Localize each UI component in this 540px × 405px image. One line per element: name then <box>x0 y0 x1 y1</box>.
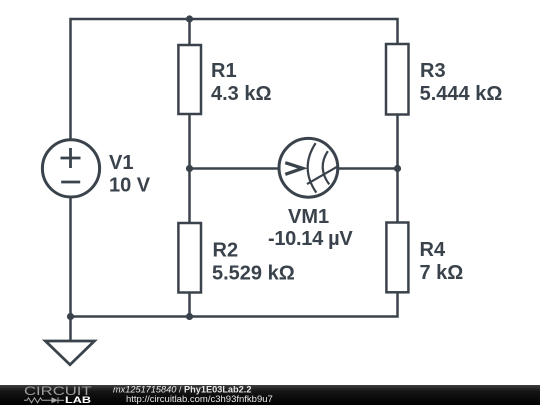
svg-text:5.529 kΩ: 5.529 kΩ <box>212 263 295 285</box>
node top <box>186 15 193 22</box>
svg-text:5.444 kΩ: 5.444 kΩ <box>420 83 503 105</box>
svg-text:R2: R2 <box>213 240 239 262</box>
wire R2 bottom stub <box>188 293 191 317</box>
wire ground stub <box>69 317 72 342</box>
wire VM1 left <box>190 167 279 170</box>
wire R1 to R2 <box>188 114 191 223</box>
wire R1 top stub <box>188 19 191 45</box>
svg-text:VM1: VM1 <box>288 206 329 228</box>
svg-text:R3: R3 <box>420 60 446 82</box>
svg-text:-10.14 µV: -10.14 µV <box>268 228 353 250</box>
node bottom-left <box>67 313 74 320</box>
svg-text:4.3 kΩ: 4.3 kΩ <box>211 83 272 105</box>
wire top rail <box>71 19 398 140</box>
svg-text:R1: R1 <box>211 60 237 82</box>
svg-text:http://circuitlab.com/c3h93fnf: http://circuitlab.com/c3h93fnfkb9u7 <box>126 394 273 405</box>
resistor R3 <box>386 44 409 115</box>
svg-text:V1: V1 <box>109 152 133 174</box>
voltmeter VM1 <box>279 138 338 197</box>
resistor R1 <box>178 45 201 114</box>
svg-text:R4: R4 <box>420 239 446 261</box>
resistor R2 <box>178 223 201 293</box>
svg-text:7 kΩ: 7 kΩ <box>420 262 464 284</box>
ground <box>45 341 94 365</box>
node bottom-mid <box>186 313 193 320</box>
resistor R4 <box>386 223 408 293</box>
logo resistor-diode symbol <box>24 397 64 403</box>
wire VM1 right <box>339 167 398 170</box>
voltage source V1 <box>42 140 99 197</box>
wire bottom rail <box>71 198 398 317</box>
node mid-left <box>186 165 193 172</box>
wire R3 to R4 <box>396 115 399 223</box>
node mid-right <box>394 165 401 172</box>
svg-text:LAB: LAB <box>65 395 92 405</box>
svg-text:10 V: 10 V <box>109 175 151 197</box>
